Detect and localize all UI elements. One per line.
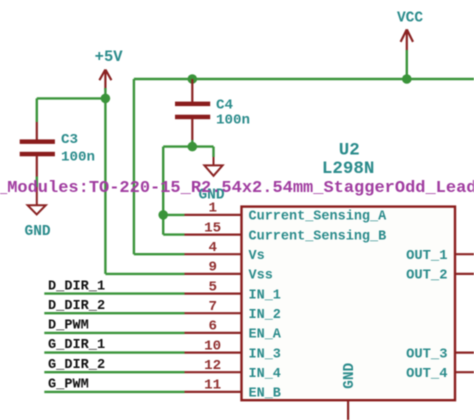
junction pin 1 node: [158, 210, 168, 220]
svg-text:VCC: VCC: [397, 10, 423, 26]
svg-text:C3: C3: [61, 132, 78, 148]
pin 6 EN_A: [185, 319, 282, 343]
wire D_PWM: [44, 332, 184, 334]
pin 8 GND bottom: [342, 362, 358, 420]
svg-text:OUT_1: OUT_1: [406, 249, 447, 264]
pin 5 IN_1: [185, 279, 281, 303]
junction +5V node: [101, 94, 111, 104]
pin 15: [185, 220, 387, 244]
svg-text:GND: GND: [342, 362, 358, 388]
svg-text:OUT_2: OUT_2: [406, 269, 447, 284]
pin 10 IN_3: [185, 338, 281, 362]
net label D_PWM: [48, 319, 89, 334]
pin 12 IN_4: [185, 358, 281, 382]
wire into pin 4 (Vs): [134, 253, 185, 255]
net label G_PWM: [48, 377, 89, 392]
svg-text:EN_B: EN_B: [249, 387, 281, 402]
svg-text:G_PWM: G_PWM: [48, 377, 89, 392]
svg-text:C4: C4: [216, 98, 234, 114]
wire G_DIR_2: [44, 371, 184, 373]
svg-text:100n: 100n: [61, 149, 95, 165]
pin 13 OUT_3: [406, 347, 474, 362]
ground below C4: [204, 157, 222, 176]
svg-text:IN_2: IN_2: [249, 308, 281, 323]
wire VCC rail: [134, 78, 474, 80]
pin 3 OUT_2: [406, 269, 474, 284]
power symbol +5V: [99, 70, 111, 91]
svg-text:D_DIR_2: D_DIR_2: [48, 299, 105, 314]
svg-text:Current_Sensing_A: Current_Sensing_A: [249, 210, 388, 225]
svg-text:Vs: Vs: [249, 249, 265, 264]
wire G_DIR_1: [44, 351, 184, 353]
net label G_DIR_1: [48, 338, 105, 353]
pin 2 OUT_1: [406, 249, 474, 264]
svg-text:6: 6: [208, 319, 217, 335]
svg-text:+5V: +5V: [95, 48, 124, 66]
svg-text:7: 7: [208, 299, 217, 315]
wire D_DIR_1: [44, 292, 184, 294]
net label D_DIR_1: [48, 279, 105, 294]
wire +5V vertical down to pin 9 row: [104, 98, 106, 274]
wire VCC drop to pin 4 row: [133, 79, 135, 254]
svg-text:Vss: Vss: [249, 269, 273, 284]
wire VCC stem: [406, 50, 408, 79]
svg-text:D_PWM: D_PWM: [48, 319, 89, 334]
svg-text:1: 1: [208, 201, 217, 217]
wire D_DIR_2: [44, 312, 184, 314]
svg-text:OUT_4: OUT_4: [406, 367, 447, 382]
pin 1: [185, 201, 388, 225]
capacitor C4: [175, 79, 250, 140]
svg-text:_Modules:TO-220-15_R2.54x2.54m: _Modules:TO-220-15_R2.54x2.54mm_StaggerO…: [0, 179, 474, 198]
pin 11 EN_B: [185, 378, 281, 402]
wire down to ground right: [212, 147, 214, 157]
capacitor C3: [20, 122, 95, 177]
svg-text:G_DIR_1: G_DIR_1: [48, 338, 105, 353]
net label D_DIR_2: [48, 299, 105, 314]
wire C3 top drop: [36, 98, 38, 122]
net label G_DIR_2: [48, 358, 105, 373]
svg-text:G_DIR_2: G_DIR_2: [48, 358, 105, 373]
svg-text:11: 11: [204, 378, 221, 394]
wire left drop to pins 1 and 15: [162, 147, 164, 235]
wire into pin 9 (Vss): [105, 273, 184, 275]
IC U2 body: [242, 207, 456, 401]
power symbol VCC: [401, 29, 413, 50]
svg-text:9: 9: [208, 260, 217, 276]
svg-text:5: 5: [208, 279, 217, 295]
svg-text:GND: GND: [25, 224, 51, 240]
junction C4 top: [188, 74, 198, 84]
ground below C3: [28, 187, 46, 215]
pin 9 Vss: [185, 260, 273, 284]
wire G_PWM: [44, 391, 184, 393]
pin 14 OUT_4: [406, 367, 474, 382]
junction C4 bottom: [188, 142, 198, 152]
svg-text:15: 15: [204, 220, 221, 236]
svg-text:IN_4: IN_4: [249, 367, 281, 382]
svg-text:OUT_3: OUT_3: [406, 347, 447, 362]
svg-text:4: 4: [208, 240, 217, 256]
pin 7 IN_2: [185, 299, 281, 323]
svg-text:IN_3: IN_3: [249, 347, 281, 362]
wire C4 bottom: [191, 140, 193, 147]
svg-text:Current_Sensing_B: Current_Sensing_B: [249, 229, 387, 244]
svg-text:U2: U2: [339, 140, 360, 160]
svg-text:12: 12: [204, 358, 221, 374]
pin 4 Vs: [185, 240, 265, 264]
svg-text:100n: 100n: [216, 113, 250, 129]
wire into pin 15: [163, 233, 184, 235]
junction VCC node: [402, 74, 412, 84]
wire into pin 1: [163, 214, 184, 216]
svg-text:L298N: L298N: [322, 159, 375, 179]
wire C4 bottom horizontal: [163, 145, 213, 147]
svg-text:10: 10: [204, 338, 221, 354]
wire +5V horizontal to C3: [37, 97, 106, 99]
svg-text:EN_A: EN_A: [249, 328, 282, 343]
wire C3 to ground: [36, 177, 38, 188]
svg-text:D_DIR_1: D_DIR_1: [48, 279, 105, 294]
svg-text:IN_1: IN_1: [249, 288, 281, 303]
wire +5V stem: [104, 88, 106, 98]
